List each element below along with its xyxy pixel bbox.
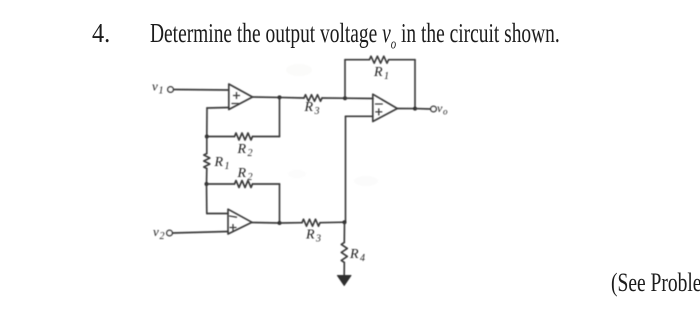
wire v1 to op-amp U1 <box>174 89 229 92</box>
wire R3 bottom to node D <box>320 221 345 224</box>
svg-text:v: v <box>152 79 158 94</box>
wire node D down to R4 <box>343 222 345 242</box>
op-amp U2 triangle <box>228 209 252 234</box>
wire left vertical upper segment <box>206 108 208 137</box>
problem number 4. <box>92 18 110 49</box>
feedback wire down to U3 output <box>414 60 416 109</box>
svg-text:R: R <box>237 166 247 181</box>
feedback wire node B up <box>344 60 346 98</box>
wire v2 to U2 plus input <box>173 232 229 234</box>
svg-text:v: v <box>153 224 159 239</box>
node D junction dot <box>343 220 347 224</box>
svg-text:3: 3 <box>314 106 320 117</box>
wire node E to R2 upper <box>207 136 235 138</box>
wire to U2 minus input <box>207 213 228 215</box>
svg-text:o: o <box>443 107 448 117</box>
svg-text:R: R <box>214 155 224 170</box>
op-amp U1 triangle <box>229 84 253 110</box>
resistor R1 feedback zigzag <box>369 56 388 63</box>
svg-text:4: 4 <box>360 253 365 264</box>
wire R2 lower to right rail <box>253 183 280 185</box>
resistor R4 vertical zigzag <box>341 242 347 262</box>
wire U1 output to node A <box>253 96 280 98</box>
svg-text:2: 2 <box>160 231 165 242</box>
node E junction dot <box>205 135 209 139</box>
wire right rail up to node A <box>279 97 281 136</box>
wire node A to R3 top <box>280 96 305 99</box>
op-amp U1 plus sign <box>234 93 240 99</box>
wire U3 plus input down to node D <box>345 116 347 222</box>
node B junction dot <box>343 96 347 100</box>
op-amp U2 minus sign <box>230 216 237 217</box>
node F junction dot <box>205 182 209 186</box>
wire node F to R2 lower <box>207 183 235 185</box>
wire U1 minus input left <box>207 107 229 110</box>
op-amp U3 minus sign <box>376 103 383 105</box>
resistor R3 bottom zigzag <box>302 219 320 226</box>
wire right rail down to node G <box>279 184 281 223</box>
svg-text:1: 1 <box>384 71 389 82</box>
wire node G to R3 bottom <box>280 222 303 224</box>
wire node B to op-amp U3 minus input <box>345 97 373 99</box>
op-amp U1 minus sign <box>232 103 239 105</box>
feedback top wire right segment <box>389 59 415 61</box>
svg-text:R: R <box>349 247 359 262</box>
svg-text:R: R <box>305 228 315 243</box>
terminal vo circle <box>431 106 437 112</box>
svg-text:R: R <box>373 65 383 80</box>
op-amp U3 triangle <box>373 94 398 121</box>
svg-text:2: 2 <box>248 172 253 183</box>
node G junction dot <box>278 221 282 225</box>
svg-text:R: R <box>304 100 314 115</box>
resistor R2 upper zigzag <box>235 133 253 140</box>
op-amp U2 plus sign <box>230 225 236 231</box>
ground arrow <box>337 276 351 286</box>
feedback top wire left segment <box>345 59 369 61</box>
wire U2 output to node G <box>252 222 280 225</box>
footer text (See Proble... cut off <box>611 268 700 298</box>
resistor R1 vertical zigzag <box>204 154 210 169</box>
node A junction dot <box>278 95 282 99</box>
svg-text:3: 3 <box>315 234 321 245</box>
wire node E down to R1 <box>206 137 208 154</box>
wire R3 to summing node B <box>322 97 345 99</box>
op-amp U3 plus sign <box>376 109 382 115</box>
wire R4 to ground <box>343 262 345 276</box>
wire R1 to node F <box>206 169 208 185</box>
wire R2 upper to right rail <box>253 136 280 138</box>
svg-text:2: 2 <box>248 148 253 159</box>
svg-text:R: R <box>237 142 247 157</box>
svg-text:1: 1 <box>225 161 230 172</box>
svg-text:1: 1 <box>159 86 164 97</box>
wire U3 plus input left <box>346 115 373 117</box>
wire node C to vo terminal <box>415 108 431 110</box>
wire node F down <box>206 184 208 214</box>
resistor R2 lower zigzag <box>235 181 253 188</box>
node C junction dot <box>413 107 417 111</box>
terminal v1 circle <box>168 87 174 93</box>
problem statement text <box>150 18 560 53</box>
terminal v2 circle <box>167 230 173 236</box>
resistor R3 top zigzag <box>304 95 322 102</box>
wire U3 output to node C <box>398 108 416 110</box>
